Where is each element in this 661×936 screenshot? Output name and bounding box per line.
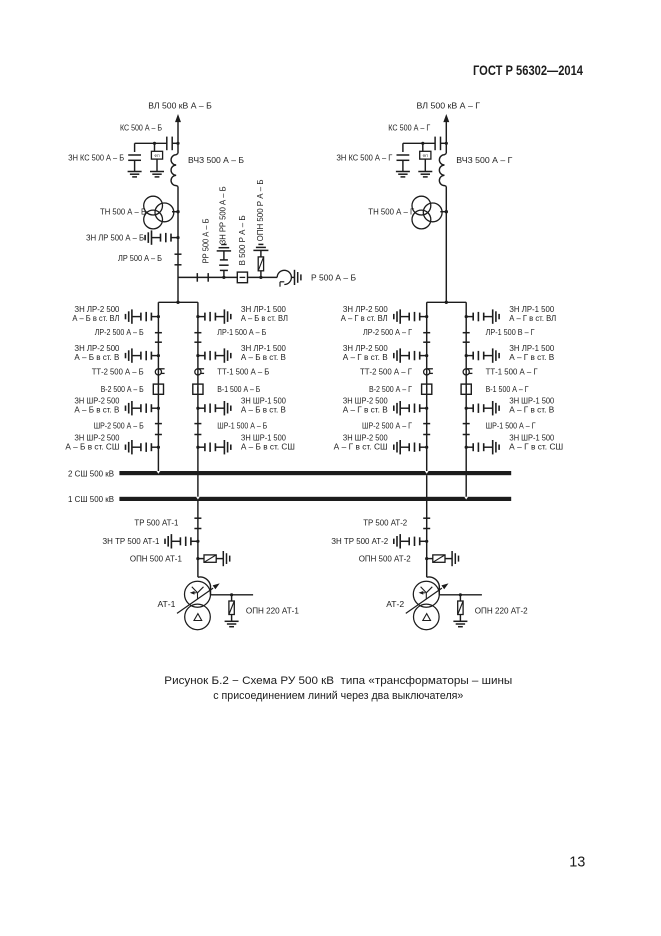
svg-text:А – Г в ст. В: А – Г в ст. В [343,352,388,362]
svg-text:ФП: ФП [154,154,160,158]
svg-text:ГОСТ Р 56302—2014: ГОСТ Р 56302—2014 [473,62,583,78]
svg-text:ТН 500 А – Б: ТН 500 А – Б [100,207,146,217]
svg-text:ОПН 220 АТ-1: ОПН 220 АТ-1 [246,606,299,616]
svg-text:ТТ-2 500 А – Б: ТТ-2 500 А – Б [92,367,145,377]
svg-text:ЛР 500 А – Б: ЛР 500 А – Б [118,253,162,263]
svg-text:А – Б в ст. В: А – Б в ст. В [74,405,119,415]
svg-text:ТР 500 АТ-1: ТР 500 АТ-1 [134,517,178,527]
svg-text:КС 500 А – Б: КС 500 А – Б [120,123,162,133]
svg-text:А – Б в ст. СШ: А – Б в ст. СШ [65,442,119,452]
svg-text:В-1 500 А – Г: В-1 500 А – Г [486,384,529,394]
svg-text:В-2 500 А – Г: В-2 500 А – Г [369,384,412,394]
svg-text:А – Б в ст. ВЛ: А – Б в ст. ВЛ [72,313,119,323]
svg-text:ВЛ 500 кВ А – Г: ВЛ 500 кВ А – Г [417,101,481,111]
svg-text:В-1 500 А – Б: В-1 500 А – Б [217,384,260,394]
svg-text:А – Б в ст. В: А – Б в ст. В [241,352,286,362]
svg-text:А – Б в ст. СШ: А – Б в ст. СШ [241,442,295,452]
svg-text:А – Б в ст. В: А – Б в ст. В [241,405,286,415]
svg-text:Рисунок Б.2 − Схема РУ 500 кВ: Рисунок Б.2 − Схема РУ 500 кВ типа «тран… [164,675,512,687]
svg-text:ЗН ТР 500 АТ-2: ЗН ТР 500 АТ-2 [331,536,388,546]
svg-text:ШР-2 500 А – Г: ШР-2 500 А – Г [362,420,412,430]
svg-text:А – Г в ст. ВЛ: А – Г в ст. ВЛ [341,313,388,323]
svg-text:ЗН КС 500 А – Б: ЗН КС 500 А – Б [68,153,124,163]
svg-text:А – Г в ст. В: А – Г в ст. В [509,405,554,415]
svg-text:ШР-2 500 А – Б: ШР-2 500 А – Б [94,420,144,430]
svg-text:АТ-2: АТ-2 [386,599,404,609]
svg-text:ЛР-1 500 А – Б: ЛР-1 500 А – Б [217,327,266,337]
svg-text:ВЛ 500 кВ А – Б: ВЛ 500 кВ А – Б [148,101,212,111]
svg-text:13: 13 [569,854,585,870]
svg-text:А – Б в ст. В: А – Б в ст. В [74,352,119,362]
svg-text:ТН 500 А – Г: ТН 500 А – Г [368,207,414,217]
svg-text:ШР-1 500 А – Б: ШР-1 500 А – Б [217,420,267,430]
svg-text:В-2 500 А – Б: В-2 500 А – Б [101,384,144,394]
svg-text:ЛР-1 500 В – Г: ЛР-1 500 В – Г [486,327,535,337]
svg-text:ОПН 500 АТ-1: ОПН 500 АТ-1 [130,554,182,564]
svg-text:А – Г в ст. В: А – Г в ст. В [343,405,388,415]
svg-text:ВЧЗ 500 А – Б: ВЧЗ 500 А – Б [188,155,244,165]
svg-text:А – Б в ст. ВЛ: А – Б в ст. ВЛ [241,313,288,323]
svg-text:с присоединением линий через д: с присоединением линий через два выключа… [213,690,463,702]
svg-text:ВЧЗ 500 А – Г: ВЧЗ 500 А – Г [456,155,512,165]
svg-text:ШР-1 500 А – Г: ШР-1 500 А – Г [486,420,536,430]
svg-text:2 СШ 500 кВ: 2 СШ 500 кВ [68,468,114,478]
svg-text:ЗН ЛР 500 А – Б: ЗН ЛР 500 А – Б [86,232,144,242]
svg-text:А – Г в ст. СШ: А – Г в ст. СШ [509,442,563,452]
svg-text:Р 500 А – Б: Р 500 А – Б [311,272,356,282]
svg-text:ТР 500 АТ-2: ТР 500 АТ-2 [363,517,407,527]
svg-text:РР 500 А – Б: РР 500 А – Б [202,218,211,263]
svg-text:ЗН КС 500 А – Г: ЗН КС 500 А – Г [336,153,392,163]
svg-text:ТТ-2 500 А – Г: ТТ-2 500 А – Г [360,367,412,377]
svg-text:КС 500 А – Г: КС 500 А – Г [388,123,430,133]
svg-text:ЛР-2 500 А – Б: ЛР-2 500 А – Б [95,327,144,337]
svg-text:А – Г в ст. В: А – Г в ст. В [509,352,554,362]
svg-text:ТТ-1 500 А – Г: ТТ-1 500 А – Г [486,367,538,377]
svg-text:ТТ-1 500 А – Б: ТТ-1 500 А – Б [217,367,270,377]
svg-text:В 500 Р А – Б: В 500 Р А – Б [238,215,247,265]
svg-text:А – Г в ст. ВЛ: А – Г в ст. ВЛ [509,313,556,323]
svg-text:ЛР-2 500 А – Г: ЛР-2 500 А – Г [363,327,412,337]
svg-text:ЗН РР 500 А – Б: ЗН РР 500 А – Б [219,186,228,244]
svg-text:А – Г в ст. СШ: А – Г в ст. СШ [334,442,388,452]
svg-text:ЗН ТР 500 АТ-1: ЗН ТР 500 АТ-1 [102,536,159,546]
svg-text:1 СШ 500 кВ: 1 СШ 500 кВ [68,494,114,504]
svg-text:ОПН 220 АТ-2: ОПН 220 АТ-2 [475,606,528,616]
svg-text:ОПН 500 Р А – Б: ОПН 500 Р А – Б [256,179,265,241]
svg-text:ОПН 500 АТ-2: ОПН 500 АТ-2 [359,554,411,564]
svg-text:АТ-1: АТ-1 [157,599,175,609]
svg-text:ФП: ФП [423,154,429,158]
